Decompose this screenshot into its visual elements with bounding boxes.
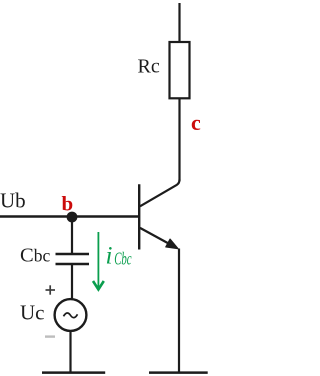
svg-text:i: i — [106, 242, 113, 269]
svg-text:Cbc: Cbc — [114, 250, 132, 269]
svg-text:Uc: Uc — [20, 300, 45, 324]
svg-text:Ub: Ub — [0, 188, 26, 212]
svg-text:Rc: Rc — [138, 56, 160, 78]
svg-text:b: b — [62, 192, 74, 216]
svg-text:c: c — [191, 110, 201, 135]
svg-text:Cbc: Cbc — [20, 244, 50, 266]
